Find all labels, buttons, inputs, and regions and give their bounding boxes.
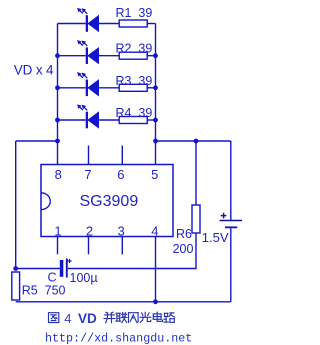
svg-text:8: 8 [55,167,62,182]
LED VD4 [58,105,120,129]
caption char shan [129,313,139,323]
svg-text:5: 5 [151,167,158,182]
svg-text:3: 3 [117,223,124,238]
pin 7 stub [88,146,90,165]
pin 3 stub [121,237,123,255]
svg-text:4: 4 [64,311,71,326]
resistor R5 [12,272,20,300]
resistor R4 box [119,117,155,124]
resistor R2 box [119,52,155,59]
caption char tu [49,313,59,323]
LED VD1 [58,8,120,32]
caption char dian [153,312,162,321]
resistor R6 [192,141,200,233]
svg-text:SG3909: SG3909 [80,193,139,210]
LED VD3 [58,73,120,97]
pin 4 lead to bottom rail [155,237,157,302]
caption char lu [164,313,175,322]
capacitor C wire left [16,268,60,270]
svg-text:http://xd.shangdu.net: http://xd.shangdu.net [45,331,192,345]
svg-text:7: 7 [84,167,91,182]
LED VD2 [58,41,120,65]
node: pin4 / bottom rail junction [153,299,158,304]
capacitor C wire right to R6 [68,233,196,269]
capacitor C plates [60,259,67,278]
resistor R1 box [119,20,155,27]
node: top rail / R6 junction [194,139,199,144]
battery B1 1.5V [220,141,242,302]
pin 6 stub [121,146,123,165]
IC U1 SG3909 outline [41,165,173,237]
svg-text:200: 200 [173,242,194,256]
resistor R3 box [119,84,155,91]
svg-text:R3 39: R3 39 [116,74,153,88]
wire: left edge vertical [15,141,17,269]
svg-text:1.5V: 1.5V [202,230,229,245]
svg-text:R2 39: R2 39 [116,42,153,56]
svg-text:R6: R6 [176,227,192,241]
svg-text:6: 6 [117,167,124,182]
svg-text:2: 2 [86,223,93,238]
pin numbers 8 7 6 5 [55,167,159,182]
wire: right bus (pin 5 net) [155,24,157,165]
pin 2 stub [88,237,90,255]
svg-text:VD: VD [78,311,97,326]
pin 1 stub [57,237,59,255]
node: R5 top junction [13,266,18,271]
capacitor + mark [67,259,71,263]
junction dots on buses [55,53,60,58]
bottom rail [16,301,231,303]
pin numbers 1 2 3 4 [54,223,158,238]
caption char lian [116,313,127,323]
battery + mark [221,213,227,219]
svg-text:R4 39: R4 39 [116,106,153,120]
svg-text:VD x 4: VD x 4 [14,63,54,78]
caption char bing [104,312,115,323]
wire: left LED bus (pin 8 net) [57,24,59,165]
svg-text:R5 750: R5 750 [22,283,66,297]
wire: left rail [16,140,58,142]
svg-text:100µ: 100µ [70,271,98,285]
svg-text:4: 4 [151,223,158,238]
svg-text:1: 1 [54,223,61,238]
svg-text:R1 39: R1 39 [116,6,153,20]
caption char guang [140,312,151,322]
wire: top rail to battery [156,140,231,142]
